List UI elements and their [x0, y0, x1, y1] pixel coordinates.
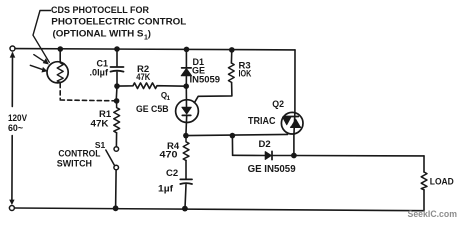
diode D2 cathode bar [271, 151, 273, 159]
callout bracket line [33, 11, 51, 63]
capacitor C1 top lead [116, 51, 118, 66]
svg-text:GE IN5059: GE IN5059 [248, 164, 296, 175]
photocell circle [47, 62, 68, 83]
resistor R2 run with zigzag [117, 83, 186, 89]
SCR Q1 circle [176, 100, 199, 123]
svg-text:IOK: IOK [239, 68, 252, 79]
svg-text:60~: 60~ [8, 123, 23, 134]
switch S1 blade [106, 150, 115, 165]
svg-text:C2: C2 [166, 168, 178, 179]
triac Q2 triangle right (up) [291, 119, 300, 126]
SCR Q1 cathode lead [185, 115, 188, 135]
wire photocell top lead [59, 49, 61, 62]
node T1 terminal top-left [10, 46, 15, 51]
wire dashed photocell to R1 vertical [59, 83, 61, 99]
svg-text:D2: D2 [259, 139, 271, 150]
svg-text:CDS PHOTOCELL FOR: CDS PHOTOCELL FOR [51, 5, 149, 16]
junction node D1 top [184, 47, 190, 53]
diode D1 cathode bar [182, 67, 192, 69]
SCR Q1 anode lead through circle [185, 86, 187, 107]
junction node R3 top [229, 47, 235, 53]
triac Q2 main vertical lead [294, 50, 295, 156]
svg-text:47K: 47K [136, 72, 150, 83]
svg-text:470: 470 [160, 149, 178, 160]
svg-text:1: 1 [167, 95, 171, 102]
wire R3 bottom to Q1 gate [194, 82, 232, 102]
light arrow 2 [30, 65, 45, 70]
svg-text:IN5059: IN5059 [190, 74, 221, 84]
arrowhead down at T2 [9, 200, 14, 205]
wire gate branch down to D2 line [231, 136, 233, 156]
SCR Q1 triangle [182, 107, 191, 114]
svg-text:): ) [148, 29, 151, 40]
wire R4 to C2 [185, 160, 187, 178]
node T2 terminal bottom-left [9, 206, 14, 211]
junction node D1 bottom [183, 83, 189, 89]
svg-text:(OPTIONAL WITH S: (OPTIONAL WITH S [53, 29, 144, 40]
svg-text:1µf: 1µf [158, 184, 174, 195]
wire D2 to Q2 main terminal node [273, 155, 294, 157]
wire left vertical upper [11, 53, 13, 107]
wire left vertical lower [11, 136, 13, 204]
wire dashed photocell to R1 horizontal [60, 99, 114, 102]
svg-text:.0lµf: .0lµf [90, 67, 110, 77]
svg-text:SeekIC.com: SeekIC.com [408, 209, 458, 219]
wire R1 to S1 [115, 133, 117, 147]
junction node photocell top [58, 46, 64, 52]
resistor LOAD top lead [423, 156, 425, 172]
arrowhead light arrow 2 [42, 67, 48, 73]
resistor LOAD zigzag [421, 172, 427, 190]
triac Q2 triangle left (down) [283, 117, 291, 125]
resistor R1 top lead and zigzag [114, 101, 120, 133]
diode D1 bottom lead [185, 76, 187, 86]
arrowhead light arrow 1 [43, 58, 49, 64]
resistor LOAD bottom lead [423, 190, 425, 211]
wire top bus [15, 49, 295, 50]
capacitor C1 plates [111, 66, 124, 68]
resistor R3 top lead [230, 50, 232, 63]
wire bottom bus [14, 208, 424, 211]
triac Q2 top bar [284, 116, 299, 118]
capacitor C2 plates [180, 178, 192, 180]
junction node C2 bottom bus [182, 206, 188, 212]
svg-text:LOAD: LOAD [430, 176, 454, 187]
diode D1 triangle [181, 69, 191, 76]
wire S1 to bottom bus [115, 170, 118, 208]
resistor R3 zigzag [228, 63, 234, 82]
wire C1 node down to R1 node [115, 86, 118, 101]
junction node gate branch [230, 133, 236, 139]
wire gate bus Q1 to Q2 [186, 134, 288, 135]
resistor zigzag inside photocell [57, 63, 63, 83]
resistor R4 zigzag [183, 136, 189, 161]
wire D2 anode lead [233, 154, 265, 156]
triac Q2 bottom bar [291, 126, 301, 128]
junction node C1 bottom [114, 83, 120, 89]
light arrow 1 [34, 55, 47, 63]
svg-text:GE C5B: GE C5B [136, 104, 169, 115]
SCR Q1 cathode bar [182, 114, 191, 116]
triac Q2 circle [281, 112, 303, 134]
switch S1 bottom contact [114, 165, 119, 170]
svg-text:CONTROL: CONTROL [58, 148, 101, 158]
diode D2 triangle [265, 152, 271, 160]
svg-text:Q2: Q2 [272, 99, 284, 109]
arrowhead up at T1 [10, 52, 16, 58]
junction node dashed to R1 [114, 98, 120, 104]
svg-text:47K: 47K [91, 119, 109, 130]
svg-text:TRIAC: TRIAC [248, 116, 276, 127]
junction node Q1 cathode [183, 133, 189, 139]
wire node to load top [294, 155, 424, 157]
junction node S1 bottom bus [113, 205, 119, 211]
junction node D2 cathode [291, 153, 297, 159]
svg-text:SWITCH: SWITCH [57, 158, 92, 168]
junction node C1 top [114, 46, 120, 52]
capacitor C2 bottom lead [185, 185, 186, 209]
switch S1 top contact [114, 147, 119, 152]
diode D1 top lead [185, 50, 187, 68]
capacitor C1 bottom lead [116, 72, 118, 85]
svg-text:PHOTOELECTRIC CONTROL: PHOTOELECTRIC CONTROL [51, 17, 186, 28]
